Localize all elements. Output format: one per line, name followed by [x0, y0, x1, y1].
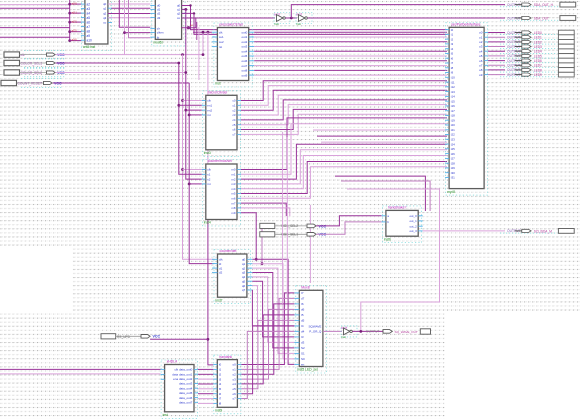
svg-text:i3: i3	[219, 377, 222, 381]
svg-text:q6: q6	[242, 284, 246, 288]
svg-text:data_out5: data_out5	[179, 391, 193, 395]
svg-text:i26: i26	[451, 152, 455, 156]
svg-text:I5: I5	[301, 313, 304, 317]
svg-text:a[3]: a[3]	[72, 29, 77, 33]
decoder U13	[161, 360, 198, 419]
svg-text:c6: c6	[232, 128, 235, 132]
svg-text:q1: q1	[103, 6, 107, 10]
svg-text:out8: out8	[242, 69, 248, 73]
svg-text:o1: o1	[232, 368, 236, 372]
junction U2.q1 branch	[184, 8, 187, 11]
wire U3.out2 to U10	[254, 41, 447, 43]
svg-text:a9: a9	[87, 34, 91, 38]
svg-text:o0: o0	[232, 363, 236, 367]
wire net feeding U1 row2	[0, 7, 70, 9]
svg-text:SQ_WAVE_OUT: SQ_WAVE_OUT	[395, 330, 418, 334]
input pin COLOR_SEL2	[4, 68, 66, 77]
wire clk2 long vertical lower	[208, 200, 213, 365]
wire U1 out to U2 in row 0	[108, 3, 150, 5]
wire U13.out5 to U14.in6	[198, 393, 213, 395]
wire prescaler clk row	[193, 31, 212, 33]
wire U3.out4 to U10	[254, 50, 447, 52]
svg-text:a7: a7	[87, 25, 91, 29]
svg-text:I3: I3	[301, 335, 304, 339]
svg-text:o0: o0	[479, 31, 483, 35]
prescaler U3	[212, 23, 254, 87]
wire U5.m1 staircase to U10	[241, 124, 447, 175]
svg-text:o6: o6	[479, 59, 483, 63]
wire branch to U2 clken	[125, 32, 151, 34]
output pin LED4	[500, 50, 557, 54]
svg-text:o3: o3	[479, 45, 483, 49]
clock divider U4	[202, 91, 241, 157]
junction reset to U4	[188, 114, 191, 117]
svg-text:data data_out1: data data_out1	[172, 372, 192, 376]
input pin RS_UPD	[101, 334, 160, 339]
wire U1 out to U2 in row 2	[108, 13, 150, 15]
svg-text:c1: c1	[232, 104, 235, 108]
svg-text:i20: i20	[451, 123, 455, 127]
wire clk2 long vertical upper	[207, 32, 209, 200]
junction on U1 input bus 0	[68, 3, 71, 6]
svg-text:out_2: out_2	[409, 224, 417, 228]
svg-text:o5: o5	[479, 54, 483, 58]
wire net feeding U1 row4	[0, 27, 70, 29]
wire U10.o2 to LED2 pin	[488, 41, 505, 43]
svg-text:a[1]: a[1]	[72, 11, 77, 15]
junction U2 clken branch	[123, 31, 126, 34]
svg-text:i5: i5	[219, 387, 222, 391]
svg-text:o4: o4	[479, 49, 483, 53]
svg-text:Mux8: Mux8	[301, 286, 309, 290]
svg-text:d7: d7	[301, 297, 305, 301]
junction clk bus to U4	[181, 99, 184, 102]
wire long vertical to MUX region	[282, 132, 284, 304]
inverter U8 NOT gate 1	[274, 12, 290, 25]
svg-text:LED4: LED4	[534, 50, 542, 54]
svg-text:en2: en2	[207, 108, 212, 112]
wire nest line1 to handshake area	[335, 176, 425, 211]
U13 pin name labels	[172, 368, 192, 405]
svg-text:c5: c5	[232, 123, 235, 127]
svg-text:i31: i31	[451, 176, 455, 180]
svg-text:q7: q7	[242, 288, 246, 292]
wire U7 out3 to SCL output	[423, 230, 505, 232]
junction between inverters	[290, 17, 293, 20]
svg-text:RGB_SEL2: RGB_SEL2	[282, 224, 299, 228]
output pin SCL_SDA_M	[500, 229, 574, 234]
wire U13.out7 to U14.in8	[198, 402, 213, 404]
svg-text:micro/Clk/sel: micro/Clk/sel	[208, 91, 228, 95]
svg-text:a[2]: a[2]	[72, 20, 77, 24]
wire U5.m8 hook down	[241, 208, 290, 216]
wire mid line c to U10	[321, 141, 447, 143]
wire U13.out1 to U14.in2	[198, 373, 213, 375]
mux U11	[294, 286, 326, 374]
wire U14.o7 up to MUX row 7	[241, 331, 294, 398]
wire stub bus to U1 pin 1	[70, 12, 82, 14]
svg-text:m1: m1	[231, 173, 235, 177]
wire sel1 vertical bus x178.8	[179, 63, 202, 174]
svg-text:out2: out2	[242, 40, 248, 44]
wire stub bus to U1 pin 2	[70, 21, 82, 23]
junction sel2 joins bus	[184, 71, 187, 74]
svg-text:I6: I6	[301, 302, 304, 306]
svg-text:m5: m5	[231, 192, 235, 196]
wire reset vertical bus x189.2	[189, 83, 213, 264]
svg-text:data_out3: data_out3	[179, 382, 193, 386]
svg-text:ce1: ce1	[219, 35, 224, 39]
wire U14.o2 up to MUX row 2	[241, 304, 294, 374]
svg-text:q5: q5	[242, 279, 246, 283]
wire net feeding U1 row5	[0, 36, 70, 38]
svg-text:a8: a8	[87, 29, 91, 33]
svg-text:counter/det: counter/det	[220, 249, 237, 253]
wire clk to distribution bus	[56, 54, 203, 56]
svg-text:RS_UPD: RS_UPD	[117, 335, 131, 339]
wire U5.m6 Z-route to U10	[241, 167, 447, 199]
svg-text:out3: out3	[242, 45, 248, 49]
svg-text:i13: i13	[451, 90, 455, 94]
svg-text:I4: I4	[301, 324, 304, 328]
svg-text:i28: i28	[451, 161, 455, 165]
wire short vertical deco 1	[196, 22, 198, 40]
svg-text:data_out6: data_out6	[179, 396, 193, 400]
svg-text:q0: q0	[242, 258, 246, 262]
wire stub clk to U5	[183, 169, 202, 171]
svg-text:co: co	[190, 23, 193, 27]
wire U3.out6 to U10	[254, 60, 447, 62]
wire net feeding U1 pin a0 (light)	[0, 4, 70, 6]
svg-text:i3: i3	[451, 42, 454, 46]
svg-text:co: co	[177, 16, 180, 20]
svg-text:c4: c4	[232, 118, 235, 122]
junction U5.m9 joins U6.q0	[255, 258, 258, 261]
svg-text:OUTPUT: OUTPUT	[366, 330, 380, 334]
svg-text:clken: clken	[157, 31, 164, 35]
wire inv out to SQ_WAVE junction	[352, 330, 383, 332]
serial interface U10	[445, 23, 488, 196]
wire inv2 out to SDA_OUT row	[307, 17, 505, 19]
svg-text:c0: c0	[232, 99, 235, 103]
svg-text:i16: i16	[451, 104, 455, 108]
wire deco vertical below Z	[309, 205, 311, 283]
svg-text:o1: o1	[479, 35, 483, 39]
svg-text:S0: S0	[301, 357, 305, 361]
wire U14.o1 up to MUX row 1	[241, 298, 294, 369]
LED output location stack	[558, 30, 574, 77]
wire stub q1 to U4	[186, 109, 202, 111]
svg-text:i24: i24	[451, 142, 455, 146]
junction clk bus to U5	[181, 168, 184, 171]
svg-text:cnt8:inst: cnt8:inst	[83, 45, 95, 49]
svg-text:out_3: out_3	[409, 229, 417, 233]
svg-text:clk: clk	[207, 99, 211, 103]
wire U3.out3 to U10	[254, 46, 447, 48]
output pin SDA_OUT_H	[500, 2, 576, 7]
svg-text:i25: i25	[451, 147, 455, 151]
handshake U7	[381, 206, 422, 243]
svg-text:i4: i4	[219, 382, 222, 386]
counter mux U5	[202, 159, 241, 226]
net name labels near U1 inputs	[72, 2, 77, 42]
counter U2 mod16	[150, 0, 186, 46]
svg-text:co: co	[103, 21, 106, 25]
junction clk meets bus v1	[181, 53, 184, 56]
U14 pin name labels	[219, 363, 236, 406]
svg-text:inst: inst	[274, 22, 279, 26]
output pin LED1	[500, 36, 557, 40]
svg-text:inst6: inst6	[384, 237, 391, 241]
svg-text:i12: i12	[451, 85, 455, 89]
wire into U13 row0	[0, 368, 161, 370]
svg-text:counter/mux/sel: counter/mux/sel	[208, 159, 232, 163]
output pin LED6	[500, 59, 557, 63]
svg-text:inst: inst	[341, 335, 346, 339]
shift register U14	[213, 355, 241, 414]
svg-text:inst: inst	[296, 22, 301, 26]
svg-text:inst3: inst3	[204, 151, 211, 155]
svg-text:mod6:i: mod6:i	[153, 41, 163, 45]
svg-text:inst: inst	[215, 82, 220, 86]
wire U6.q0 down to MUX row 13	[252, 259, 294, 364]
svg-text:i22: i22	[451, 133, 455, 137]
svg-text:i1: i1	[219, 368, 222, 372]
svg-text:SCL/SDA_M: SCL/SDA_M	[534, 229, 552, 233]
inverter U9 NOT gate 2	[296, 12, 312, 25]
svg-text:o7: o7	[479, 64, 483, 68]
svg-text:inst5 LED_sel: inst5 LED_sel	[297, 368, 318, 372]
junction right of U2	[187, 26, 190, 29]
svg-text:tb: tb	[157, 35, 160, 39]
svg-text:inst7: inst7	[216, 298, 223, 302]
svg-text:out9: out9	[242, 73, 248, 77]
wire U5.m0 staircase to U10	[241, 118, 447, 170]
wire nest line2	[341, 181, 430, 211]
svg-text:P_OR_Q: P_OR_Q	[309, 330, 322, 334]
output pin SQ_WAVE_OUT	[366, 329, 431, 334]
wire U14.o6 up to MUX row 6	[241, 326, 294, 394]
svg-text:LED0: LED0	[534, 31, 542, 35]
wire vertical to U2 clr	[119, 0, 150, 27]
wire COLOR_SEL2 to bus	[56, 72, 186, 74]
junction clk stub a	[202, 31, 205, 34]
svg-text:a5: a5	[87, 16, 91, 20]
svg-text:S2: S2	[301, 346, 305, 350]
svg-text:data_out7: data_out7	[179, 401, 193, 405]
wire U6.q7 down to MUX row 6	[252, 290, 294, 326]
wire stub clk to U4	[183, 100, 202, 102]
input pin COUNT_RESET	[1, 79, 63, 88]
svg-text:i14: i14	[451, 95, 455, 99]
svg-text:o2: o2	[232, 372, 236, 376]
wire net feeding U1 row3	[0, 17, 70, 19]
svg-text:a[0]: a[0]	[72, 2, 77, 6]
svg-text:i8: i8	[451, 66, 454, 70]
output pin LED3	[500, 45, 557, 49]
wire U3.out9 to U10	[254, 74, 447, 76]
blank canvas patch left-middle	[0, 246, 72, 312]
svg-text:my:i8: my:i8	[447, 190, 455, 194]
svg-text:rst: rst	[219, 45, 222, 49]
wire U4.c6 staircase to U10	[241, 109, 447, 129]
svg-text:o6: o6	[232, 392, 236, 396]
junction on q2 corner	[193, 12, 195, 14]
wire RGB_SEL1 to U7.b	[316, 222, 381, 234]
output pin LED8	[500, 68, 557, 72]
svg-text:i23: i23	[451, 138, 455, 142]
wire U5.m3 Z-route to U10	[241, 150, 447, 184]
svg-text:m9: m9	[231, 211, 235, 215]
wire U10.o5 to LED5 pin	[488, 55, 505, 57]
wire U4.c2 staircase to U10	[241, 90, 447, 110]
input pin CLK	[4, 50, 66, 59]
wire q1 vertical bus x185.8	[186, 9, 202, 179]
svg-text:i8: i8	[219, 402, 222, 406]
svg-text:data_out4: data_out4	[179, 386, 193, 390]
svg-text:out_0: out_0	[409, 214, 417, 218]
wire U10.o4 to LED4 pin	[488, 50, 505, 52]
svg-text:i1: i1	[451, 33, 454, 37]
blank canvas patch bottom-right	[445, 313, 580, 419]
svg-text:d4: d4	[301, 330, 305, 334]
wire stub sel1 to U4	[179, 104, 202, 106]
wire U13.out0 to U14.in1	[198, 368, 213, 370]
junction on clk at U3 input	[202, 31, 204, 33]
wire U3.out7 to U10	[254, 65, 447, 67]
svg-text:m2: m2	[231, 177, 235, 181]
wire stub reset to U4	[189, 114, 202, 116]
U11 pin name labels	[301, 291, 322, 367]
svg-text:o7: o7	[232, 397, 236, 401]
svg-text:out6: out6	[242, 59, 248, 63]
wire COLOR_SEL1 to bus	[56, 62, 179, 64]
wire deco vertical join U6.q1	[261, 224, 263, 264]
wire U10.o3 to LED3 pin	[488, 46, 505, 48]
svg-text:o9: o9	[479, 73, 483, 77]
wire U4.c0 staircase to U10	[241, 81, 447, 101]
output pin LED7	[500, 64, 557, 68]
wire stub bus to U1 pin 0	[70, 3, 82, 5]
svg-text:LED3: LED3	[534, 45, 542, 49]
svg-text:prescale/Ctr/sel: prescale/Ctr/sel	[219, 23, 243, 27]
svg-text:i15: i15	[451, 99, 455, 103]
svg-text:a10: a10	[87, 38, 93, 42]
svg-text:VCC: VCC	[153, 335, 161, 339]
junction q1 to U4	[184, 109, 187, 112]
svg-text:ld: ld	[219, 262, 222, 266]
wire U6.q5 down to MUX row 8	[252, 281, 294, 337]
svg-text:clk: clk	[219, 30, 223, 34]
wire U2.co to inverter chain	[182, 17, 275, 19]
junction on q0 corner	[189, 4, 191, 6]
wire U6.q4 down to MUX row 9	[252, 277, 294, 343]
svg-text:q2: q2	[177, 12, 181, 16]
svg-text:m0: m0	[231, 168, 235, 172]
svg-text:i7: i7	[219, 397, 222, 401]
junction on U1 input bus 2	[68, 21, 71, 24]
wire U4.c1 staircase to U10	[241, 86, 447, 106]
svg-text:a[4]: a[4]	[72, 38, 77, 42]
svg-text:c3: c3	[232, 113, 235, 117]
wire vertical bus left of U1	[69, 0, 71, 41]
svg-text:SQWAVE: SQWAVE	[309, 325, 322, 329]
wire RS_UPD to vertical	[150, 338, 208, 340]
svg-text:a2: a2	[87, 2, 91, 6]
wire U3.out0 to U10	[254, 31, 447, 33]
svg-text:m7: m7	[231, 201, 235, 205]
wire U2.q0 to U10 pin0 long line	[182, 6, 447, 30]
svg-text:m3: m3	[231, 182, 235, 186]
U1 left pin name labels	[87, 2, 107, 42]
svg-text:m4: m4	[231, 187, 235, 191]
junction sel1 to U4	[177, 104, 180, 107]
input pin COLOR_SEL1	[4, 59, 66, 68]
svg-text:d2: d2	[219, 271, 223, 275]
svg-text:o3: o3	[232, 377, 236, 381]
svg-text:q3: q3	[242, 271, 246, 275]
junction sel1 turn	[177, 62, 180, 65]
svg-text:i17: i17	[451, 109, 455, 113]
svg-text:RGB_SEL1: RGB_SEL1	[282, 233, 299, 237]
svg-text:s2: s2	[207, 177, 210, 181]
wire U1 out to U2 in row 1	[111, 7, 150, 9]
svg-text:out1: out1	[242, 35, 248, 39]
output pin LED5	[500, 54, 557, 58]
wire U13.out4 to U14.in5	[198, 388, 213, 390]
wire U10.o6 to LED6 pin	[488, 60, 505, 62]
wire U14.o4 up to MUX row 4	[241, 315, 294, 384]
wire U5.m7 hook down	[241, 203, 286, 216]
wire U2.q1 down to U4 in1	[182, 8, 186, 10]
svg-text:i0: i0	[219, 363, 222, 367]
wire U14.o3 up to MUX row 3	[241, 309, 294, 379]
svg-text:out_1: out_1	[409, 219, 417, 223]
wire U14.o5 up to MUX row 5	[241, 320, 294, 388]
svg-text:a3: a3	[87, 7, 91, 11]
svg-text:q3: q3	[103, 16, 107, 20]
svg-text:xHDL4: xHDL4	[167, 360, 177, 364]
svg-text:i19: i19	[451, 118, 455, 122]
wire stub bus to U1 pin 3	[70, 31, 82, 33]
wire short vertical deco 2	[198, 27, 200, 80]
svg-text:i10: i10	[451, 76, 455, 80]
output pin LED0	[500, 31, 557, 35]
svg-text:ena data_out2: ena data_out2	[173, 377, 193, 381]
svg-text:en1: en1	[207, 104, 212, 108]
wire clk vertical bus x182.5	[183, 55, 214, 260]
svg-text:inst9: inst9	[215, 409, 222, 413]
svg-text:en: en	[301, 363, 305, 367]
junction RS_UPD joins clk2 bus	[207, 338, 210, 341]
wire clr feedback	[182, 18, 196, 28]
svg-text:SDA_OUT_H: SDA_OUT_H	[534, 3, 554, 7]
wire U5.m5 Z-route to U10	[241, 162, 447, 194]
svg-text:LED5: LED5	[534, 54, 542, 58]
svg-text:clk: clk	[207, 168, 211, 172]
output pin LED9	[500, 73, 557, 77]
svg-text:i18: i18	[451, 114, 455, 118]
wire U2.q2 to U10 pin1 long line	[182, 13, 447, 34]
U2 left pin labels	[157, 4, 161, 20]
svg-text:rst: rst	[207, 182, 210, 186]
svg-text:a6: a6	[87, 20, 91, 24]
wire U6.q6 down to MUX row 7	[252, 286, 294, 332]
svg-text:I7: I7	[301, 291, 304, 295]
wire U5.m4 Z-route to U10	[241, 156, 447, 189]
wire mid line a to U10	[313, 129, 447, 131]
svg-text:ser/ParDe/Interface: ser/ParDe/Interface	[451, 23, 481, 27]
